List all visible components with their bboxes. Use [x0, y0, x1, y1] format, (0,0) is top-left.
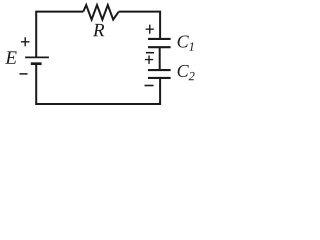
wire: between C1 and C2	[159, 47, 161, 70]
label E (source voltage)	[5, 51, 17, 63]
capacitor C1: top plate	[148, 38, 171, 40]
label C2 (capacitor)	[178, 65, 195, 80]
label R (resistor)	[93, 24, 104, 36]
wire: top-right segment (resistor to C1, with top-right corner)	[119, 12, 160, 39]
polarity + above C1	[146, 25, 154, 34]
capacitor C2: bottom plate	[148, 77, 171, 79]
wire: left branch top (battery positive lead, with top-left corner)	[36, 12, 83, 58]
battery E: short negative plate	[31, 62, 42, 65]
polarity - below C2	[145, 85, 154, 87]
resistor R	[83, 5, 118, 20]
polarity + above C2	[145, 56, 153, 64]
polarity - at battery bottom	[20, 73, 28, 75]
battery E: long positive plate	[25, 56, 49, 58]
wire: bottom loop (C2 lead, bottom wire, battery negative lead)	[36, 64, 160, 104]
polarity - below C1	[146, 52, 154, 54]
capacitor C2: top plate	[148, 69, 171, 71]
polarity + at battery top	[21, 37, 30, 46]
label C1 (capacitor)	[178, 35, 194, 50]
capacitor C1: bottom plate	[148, 46, 171, 48]
